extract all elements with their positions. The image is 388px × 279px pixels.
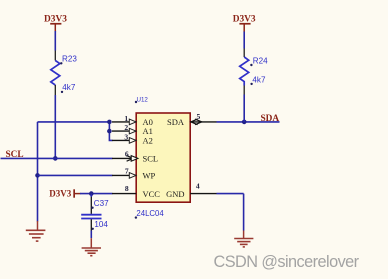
svg-text:1: 1	[124, 114, 128, 123]
svg-text:CSDN @sincerelover: CSDN @sincerelover	[214, 253, 360, 271]
ground (left)	[26, 221, 46, 241]
power port D3V3 (VCC rail, horizontal)	[49, 188, 80, 198]
svg-text:SDA: SDA	[261, 114, 280, 124]
svg-text:4: 4	[196, 182, 200, 191]
designator U12	[135, 96, 149, 103]
resistor R23	[51, 51, 60, 96]
ground (under C37)	[82, 238, 101, 256]
wire R24 to SDA	[243, 95, 245, 122]
svg-text:GND: GND	[166, 189, 184, 199]
svg-text:D3V3: D3V3	[49, 188, 71, 198]
pin name SDA	[167, 117, 185, 127]
svg-text:U12: U12	[137, 96, 149, 103]
pin 5 SDA	[190, 119, 216, 125]
svg-text:8: 8	[125, 184, 129, 193]
pin 3 A2	[112, 138, 136, 144]
pin number 7	[125, 167, 129, 176]
pin name WP	[143, 170, 156, 180]
svg-text:R24: R24	[253, 57, 268, 66]
pin name A2	[143, 135, 153, 145]
pin number 8	[125, 184, 129, 193]
junction A1	[107, 129, 112, 134]
op IC U12 24LC04 body	[136, 113, 190, 202]
value label 4k7 (R24)	[250, 75, 266, 85]
svg-text:3: 3	[124, 132, 128, 141]
wire VCC horizontal	[80, 193, 113, 195]
part name 24LC04	[135, 209, 165, 219]
svg-text:4k7: 4k7	[62, 83, 76, 92]
value label 4k7 (R23)	[61, 83, 76, 93]
value label 104 (C37)	[92, 220, 109, 230]
svg-text:A2: A2	[143, 135, 153, 145]
ground (right)	[234, 231, 253, 247]
svg-text:24LC04: 24LC04	[136, 209, 164, 218]
svg-text:R23: R23	[62, 54, 77, 63]
wire SCL horizontal	[1, 157, 113, 159]
pin name A1	[143, 126, 153, 136]
pin 8 VCC	[112, 193, 136, 195]
junction VCC/C37	[89, 191, 94, 196]
wire left vertical to ground	[37, 122, 39, 222]
pin number 3	[124, 132, 128, 141]
pin 7 WP	[112, 173, 136, 179]
svg-text:4k7: 4k7	[252, 75, 266, 84]
wire SDA horizontal	[217, 121, 280, 123]
svg-text:2: 2	[124, 123, 128, 132]
net label SDA	[261, 114, 280, 124]
svg-text:SCL: SCL	[143, 154, 159, 164]
resistor R24	[240, 49, 249, 95]
wire GND vertical	[243, 194, 245, 231]
pin number 1	[124, 114, 128, 123]
junction SDA/R24	[242, 120, 247, 125]
pin number 4	[196, 182, 200, 191]
junction WP	[35, 173, 40, 178]
capacitor C37	[81, 215, 101, 219]
svg-text:WP: WP	[143, 170, 156, 180]
net label SCL	[6, 150, 24, 160]
power port D3V3 (right)	[233, 15, 256, 32]
svg-text:7: 7	[125, 167, 129, 176]
wire D3V3 to R23	[54, 31, 56, 51]
svg-text:6: 6	[125, 150, 129, 159]
pin name A0	[143, 117, 153, 127]
pin name VCC	[143, 189, 161, 199]
pin number 6	[125, 150, 129, 159]
designator label C37	[91, 199, 109, 209]
svg-text:104: 104	[94, 220, 108, 229]
wire WP horizontal	[38, 174, 113, 176]
wire C37 top	[90, 194, 92, 214]
wire D3V3 to R24	[243, 32, 245, 49]
svg-text:VCC: VCC	[143, 189, 161, 199]
junction R23/SCL	[53, 156, 58, 161]
wire A0 tie horizontal	[38, 121, 110, 123]
pin 6 SCL	[112, 156, 138, 162]
pin number 2	[124, 123, 128, 132]
svg-text:C37: C37	[94, 199, 109, 208]
pin number 5	[197, 112, 201, 121]
wire C37 bottom	[90, 219, 92, 238]
power port D3V3 (left)	[44, 15, 67, 32]
wire vertical tie A0/A1/A2	[109, 122, 112, 140]
svg-text:5: 5	[197, 112, 201, 121]
pin name SCL	[143, 154, 159, 164]
watermark CSDN @sincerelover	[214, 253, 360, 271]
wire GND pin 4	[217, 193, 244, 195]
svg-text:SDA: SDA	[167, 117, 185, 127]
pin 4 GND	[190, 193, 216, 195]
pin 2 A1	[112, 128, 136, 134]
junction A0	[107, 120, 112, 125]
pin name GND	[166, 189, 184, 199]
designator label R24	[250, 57, 268, 67]
designator label R23	[60, 54, 77, 64]
pin 1 A0	[112, 119, 136, 125]
wire R23 to SCL net	[54, 95, 56, 158]
